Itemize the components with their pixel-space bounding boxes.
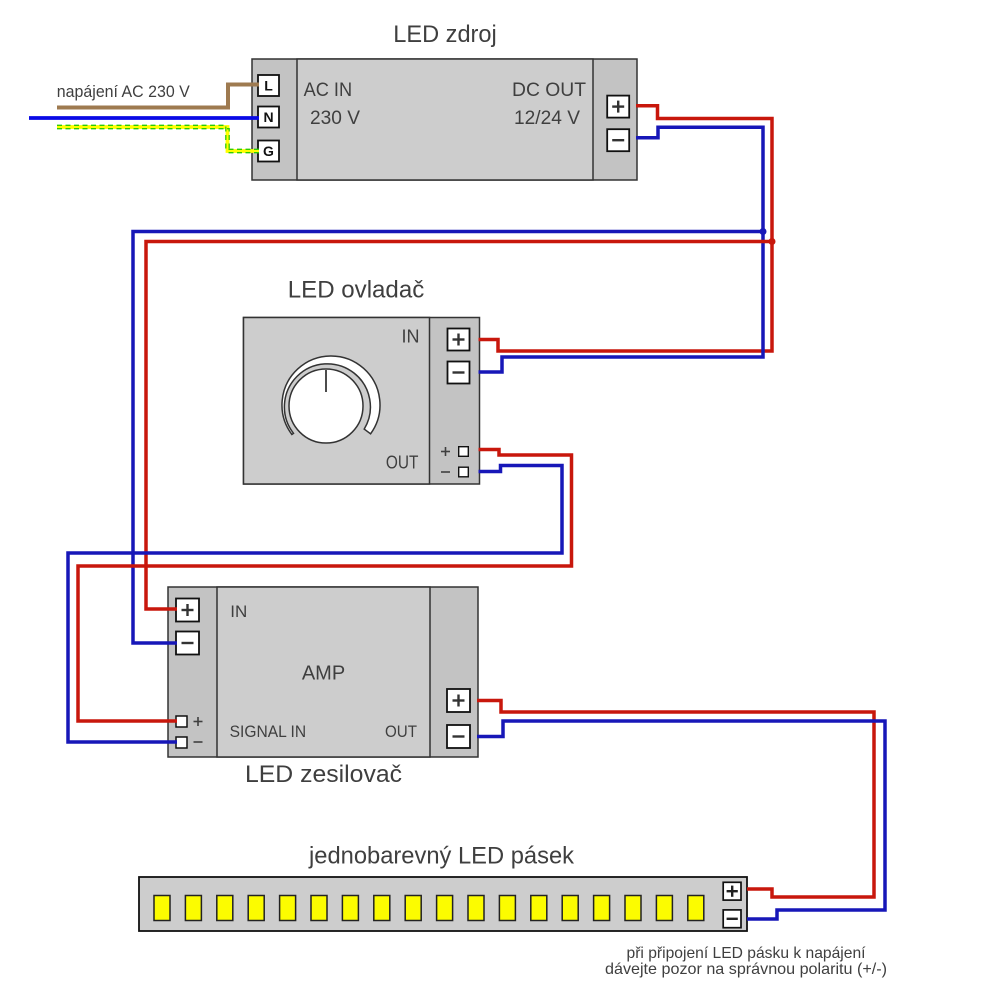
svg-text:N: N [263,109,273,125]
svg-text:LED zdroj: LED zdroj [393,21,497,48]
svg-text:LED ovladač: LED ovladač [288,277,425,304]
svg-text:AMP: AMP [302,663,345,685]
svg-text:SIGNAL IN: SIGNAL IN [230,722,307,741]
svg-text:LED zesilovač: LED zesilovač [245,761,402,788]
svg-text:OUT: OUT [385,722,417,741]
svg-text:DC OUT: DC OUT [512,79,586,101]
svg-text:G: G [263,143,274,159]
svg-text:napájení AC 230 V: napájení AC 230 V [57,82,191,101]
svg-text:L: L [264,78,273,94]
svg-text:230 V: 230 V [310,107,360,129]
svg-text:při připojení LED pásku k napá: při připojení LED pásku k napájení [627,945,867,962]
svg-text:12/24 V: 12/24 V [514,107,580,129]
svg-text:IN: IN [230,602,247,621]
svg-text:dávejte pozor na správnou pola: dávejte pozor na správnou polaritu (+/-) [605,961,887,978]
svg-text:IN: IN [402,327,420,347]
svg-text:jednobarevný LED pásek: jednobarevný LED pásek [308,843,575,870]
svg-text:OUT: OUT [386,453,419,473]
svg-text:AC IN: AC IN [304,79,353,101]
